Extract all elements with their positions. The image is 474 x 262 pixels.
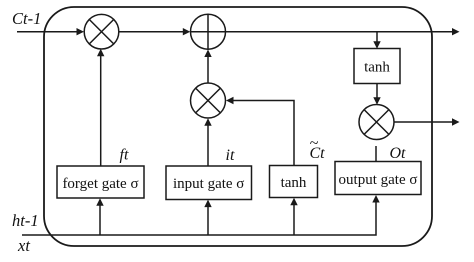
svg-text:output gate σ: output gate σ (339, 172, 418, 188)
svg-text:forget gate σ: forget gate σ (62, 176, 138, 192)
svg-text:ht-1: ht-1 (12, 211, 39, 230)
svg-text:xt: xt (17, 236, 30, 255)
svg-text:Ct-1: Ct-1 (12, 9, 41, 28)
svg-text:input gate σ: input gate σ (173, 176, 244, 192)
svg-text:it: it (226, 147, 235, 164)
svg-text:tanh: tanh (364, 60, 390, 76)
svg-text:~: ~ (310, 135, 319, 152)
svg-text:Ot: Ot (390, 145, 407, 162)
svg-text:tanh: tanh (281, 175, 307, 191)
svg-text:ft: ft (120, 147, 129, 164)
